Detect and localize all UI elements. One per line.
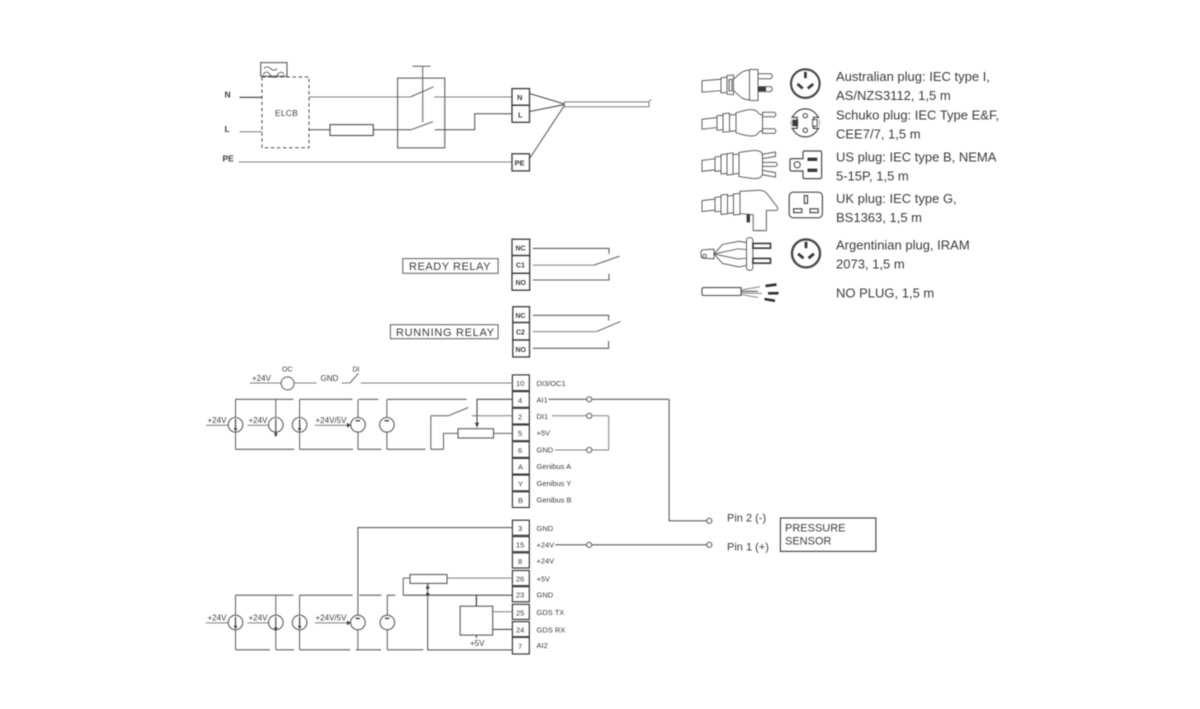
svg-text:NO PLUG, 1,5 m: NO PLUG, 1,5 m (836, 286, 934, 301)
svg-text:N: N (517, 93, 522, 102)
upper bottom bus seg2 (300, 448, 353, 450)
svg-text:AS/NZS3112, 1,5 m: AS/NZS3112, 1,5 m (836, 88, 951, 103)
wire DI1 to connector (552, 413, 609, 418)
lower top bus seg3 (359, 594, 381, 596)
svg-text:GND: GND (537, 445, 554, 454)
terminal 5 (512, 425, 529, 441)
+24V label DI3 row (250, 374, 281, 383)
wiper arrow (upper) (475, 423, 479, 428)
svg-text:+24V: +24V (249, 614, 269, 623)
Australian plug side icon (702, 70, 772, 101)
svg-text:Pin 2 (-): Pin 2 (-) (727, 513, 766, 525)
svg-text:10: 10 (516, 379, 524, 388)
current source I5 (380, 399, 395, 449)
relay2 terminal NC (513, 307, 530, 323)
wire DI1 to GND jumper (608, 416, 610, 450)
wire GDS RX (493, 628, 513, 630)
current source I1 (228, 399, 243, 449)
PRESSURE SENSOR box (780, 518, 876, 551)
svg-text:23: 23 (516, 591, 524, 600)
terminal N (512, 89, 530, 106)
wire PE (239, 161, 512, 163)
svg-text:25: 25 (516, 608, 524, 617)
svg-text:8: 8 (518, 557, 522, 566)
Pin 2 connector circle (707, 518, 712, 523)
svg-text:GDS RX: GDS RX (537, 625, 566, 634)
wire DI1 to terminal 2 (472, 415, 513, 417)
terminal 7 (512, 637, 529, 654)
wire N left (240, 96, 262, 98)
wire pot to terminal 26 (447, 577, 512, 579)
svg-text:BS1363, 1,5 m: BS1363, 1,5 m (836, 210, 922, 225)
upper bottom bus seg1 (236, 448, 295, 450)
UK plug side icon (702, 190, 778, 230)
wire L to cable (530, 105, 565, 112)
svg-text:C1: C1 (516, 263, 525, 270)
potentiometer R1 (458, 429, 494, 438)
terminal 3 (512, 520, 529, 535)
wire GND3 left (358, 528, 513, 616)
Argentinian plug text (836, 238, 970, 272)
wire bus to GDS box (475, 595, 477, 606)
upper bottom bus seg4 (387, 448, 426, 450)
terminal A (512, 458, 529, 474)
switch actuator (412, 66, 430, 122)
svg-text:A: A (518, 463, 523, 472)
upper top bus seg3 (359, 398, 378, 400)
upper bottom bus seg3 (358, 448, 382, 450)
svg-text:Genibus Y: Genibus Y (537, 479, 572, 488)
pot left corner (upper) (444, 433, 459, 449)
US plug text (836, 150, 997, 184)
svg-text:Y: Y (518, 479, 523, 488)
svg-text:+24V: +24V (249, 416, 269, 425)
junction dot wiper-bus (426, 593, 429, 596)
svg-text:+24V/5V: +24V/5V (316, 614, 348, 623)
wire PE to cable (530, 106, 565, 159)
wire GDS TX (493, 611, 513, 613)
wire terminal 4 to wiper (477, 399, 512, 422)
relay1 terminal C1 (512, 256, 530, 274)
terminal 6 (512, 442, 529, 458)
svg-text:DI: DI (353, 367, 360, 374)
svg-text:+5V: +5V (470, 639, 485, 648)
READY RELAY label box (403, 259, 498, 274)
Australian plug text (836, 69, 990, 103)
UK plug text (836, 191, 957, 225)
svg-text:Australian plug: IEC type I,: Australian plug: IEC type I, (836, 69, 990, 84)
relay1 switch arm (594, 256, 620, 265)
wire N to terminal (434, 96, 512, 98)
svg-text:C2: C2 (516, 330, 525, 337)
lower bottom bus seg3 (300, 649, 351, 651)
wire N through switch (309, 96, 410, 98)
terminal 10 (512, 375, 529, 391)
wire AI1 to connector (549, 397, 670, 402)
Argentinian plug side icon (701, 238, 771, 271)
svg-text:US plug: IEC type B, NEMA: US plug: IEC type B, NEMA (836, 150, 997, 165)
lower bottom bus seg4 (356, 649, 381, 651)
Pin 1 connector circle (707, 542, 712, 547)
svg-text:24: 24 (516, 626, 524, 635)
svg-text:DI1: DI1 (537, 412, 549, 421)
current source I3 (292, 399, 307, 449)
svg-text:GND: GND (537, 524, 554, 533)
lower top bus seg1 (236, 594, 294, 596)
relay2 terminal C2 (513, 323, 530, 341)
switch S1 box (398, 78, 445, 148)
Australian plug face icon (791, 69, 820, 98)
terminal L (512, 105, 530, 122)
svg-text:PRESSURE: PRESSURE (785, 523, 846, 535)
wire L to fuse (309, 129, 330, 131)
svg-text:+24V: +24V (252, 374, 272, 383)
+24V label source1 (206, 416, 228, 425)
svg-text:+24V: +24V (537, 540, 555, 549)
svg-text:L: L (518, 111, 523, 120)
lower top bus seg5 to terminal 23 (403, 594, 512, 596)
svg-text:3: 3 (518, 524, 522, 533)
svg-text:B: B (518, 496, 523, 505)
US plug face icon (790, 151, 822, 179)
lower bottom bus seg1 (236, 649, 270, 651)
mains cable (564, 100, 651, 107)
wire wiper to terminal 7 (428, 584, 513, 650)
+24V label source1b (206, 614, 228, 623)
svg-text:15: 15 (516, 541, 524, 550)
terminal 8 (512, 553, 529, 568)
wire relay2 C2 (533, 331, 597, 333)
terminal 26 (512, 571, 529, 586)
svg-text:PE: PE (515, 159, 525, 168)
svg-text:4: 4 (518, 396, 522, 405)
svg-text:+24V: +24V (208, 614, 228, 623)
lower bottom bus seg5 (387, 649, 423, 651)
svg-text:Argentinian plug, IRAM: Argentinian plug, IRAM (836, 238, 970, 253)
wire relay2 NC (533, 315, 609, 320)
wire DI to terminal 10 (361, 382, 513, 384)
svg-text:5-15P, 1,5 m: 5-15P, 1,5 m (836, 169, 909, 184)
GDS module box (460, 606, 493, 635)
svg-text:2: 2 (518, 413, 522, 422)
svg-text:GND: GND (537, 591, 554, 600)
current source I8 (292, 595, 307, 650)
fuse F1 (330, 125, 373, 136)
svg-text:L: L (225, 124, 230, 134)
Schuko plug face icon (791, 109, 819, 137)
svg-text:AI2: AI2 (537, 641, 548, 650)
svg-text:Pin 1 (+): Pin 1 (+) (727, 542, 769, 554)
svg-text:SENSOR: SENSOR (785, 536, 832, 548)
svg-text:GDS TX: GDS TX (537, 608, 565, 617)
svg-text:+5V: +5V (537, 429, 551, 438)
upper top bus seg4 (387, 398, 466, 400)
lower top bus seg4 (387, 594, 395, 596)
svg-text:Genibus A: Genibus A (537, 462, 572, 471)
svg-text:26: 26 (516, 575, 524, 584)
wire L to terminal (435, 114, 512, 130)
terminal 25 (512, 604, 529, 619)
svg-text:UK plug: IEC type G,: UK plug: IEC type G, (836, 191, 957, 206)
wire GND to connector (555, 447, 609, 452)
svg-text:DI3/OC1: DI3/OC1 (537, 379, 566, 388)
svg-text:OC: OC (282, 367, 293, 374)
svg-text:Schuko plug: IEC Type E&F,: Schuko plug: IEC Type E&F, (836, 108, 999, 123)
svg-text:NC: NC (516, 313, 526, 320)
wire OC to GND (294, 382, 316, 384)
terminal 24 (512, 622, 529, 637)
svg-text:READY RELAY: READY RELAY (409, 261, 491, 273)
terminal PE (512, 154, 530, 171)
+24V label source2b (248, 614, 269, 623)
wire fuse to switch (373, 129, 411, 131)
upper top bus seg1 (236, 398, 294, 400)
potentiometer R2 (410, 575, 447, 584)
svg-text:NO: NO (516, 347, 527, 354)
pot left corner (lower) (403, 578, 410, 595)
Argentinian plug face icon (792, 239, 820, 267)
upper bottom bus seg5 (431, 448, 444, 450)
svg-text:AI1: AI1 (537, 395, 548, 404)
wire DI1 to pivot (431, 415, 449, 417)
svg-text:5: 5 (518, 429, 522, 438)
wire L left (240, 131, 262, 133)
svg-text:NO: NO (516, 280, 527, 287)
wire relay1 NC (533, 248, 609, 253)
relay2 switch arm (597, 321, 621, 331)
wire relay2 NO (533, 341, 609, 348)
svg-text:PE: PE (223, 153, 235, 163)
svg-text:7: 7 (518, 642, 522, 651)
wire +24V to Pin 1 (555, 542, 706, 547)
relay1 terminal NO (512, 273, 530, 290)
svg-text:2073, 1,5 m: 2073, 1,5 m (836, 257, 905, 272)
svg-text:N: N (225, 89, 231, 99)
svg-text:+5V: +5V (537, 574, 551, 583)
US plug side icon (702, 150, 777, 178)
terminal B (512, 492, 529, 508)
current source I2 (269, 399, 284, 437)
terminal Y (512, 475, 529, 491)
UK plug face icon (789, 192, 822, 218)
current source I10 (380, 595, 395, 650)
lower top bus seg2 (300, 594, 353, 596)
terminal 15 (512, 537, 529, 552)
wire N to cable (530, 94, 565, 105)
svg-text:RUNNING RELAY: RUNNING RELAY (396, 327, 495, 339)
DI switch (342, 367, 360, 384)
terminal 2 (512, 408, 529, 424)
wire relay1 NO (533, 274, 609, 280)
relay2 terminal NO (513, 340, 530, 357)
terminal 23 (512, 587, 529, 602)
wire AI1 down to Pin 2 (669, 399, 707, 521)
switch contact L arm (411, 122, 433, 130)
svg-text:Genibus B: Genibus B (537, 496, 572, 505)
wire pot to terminal 5 (494, 432, 513, 434)
relay1 terminal NC (512, 239, 530, 255)
Schuko plug text (836, 108, 999, 142)
svg-text:6: 6 (518, 446, 522, 455)
svg-text:GND: GND (321, 374, 339, 383)
wiper arrow (lower) (426, 584, 430, 589)
switch contact N arm (410, 87, 433, 97)
svg-text:+24V/5V: +24V/5V (316, 416, 348, 425)
current source I7 (269, 595, 284, 650)
GDS +5V stub (475, 635, 477, 638)
svg-text:CEE7/7, 1,5 m: CEE7/7, 1,5 m (836, 127, 921, 142)
current source I6 (228, 595, 243, 650)
RCD sensor box (261, 63, 287, 78)
svg-text:+24V: +24V (537, 557, 555, 566)
Schuko plug side icon (702, 110, 776, 136)
current source I9 (351, 615, 366, 650)
svg-text:NC: NC (516, 246, 526, 253)
+24V/5V label upper (315, 416, 351, 428)
svg-text:ELCB: ELCB (275, 108, 298, 118)
terminal 4 (512, 392, 529, 408)
OC open-collector circle (281, 367, 294, 390)
lower bottom bus seg2 (276, 649, 294, 651)
RUNNING RELAY label box (390, 325, 498, 339)
upper top bus seg2 (300, 398, 353, 400)
svg-text:+24V: +24V (208, 416, 228, 425)
NO PLUG cable icon (702, 285, 779, 301)
wire DI1 left vertical (430, 416, 432, 450)
current source I4 (351, 399, 366, 449)
wire relay1 C1 (533, 264, 594, 266)
+24V label source2 (248, 416, 269, 425)
ELCB box (262, 77, 309, 148)
DI1 switch arm (448, 408, 468, 416)
+24V/5V label lower (315, 614, 351, 626)
